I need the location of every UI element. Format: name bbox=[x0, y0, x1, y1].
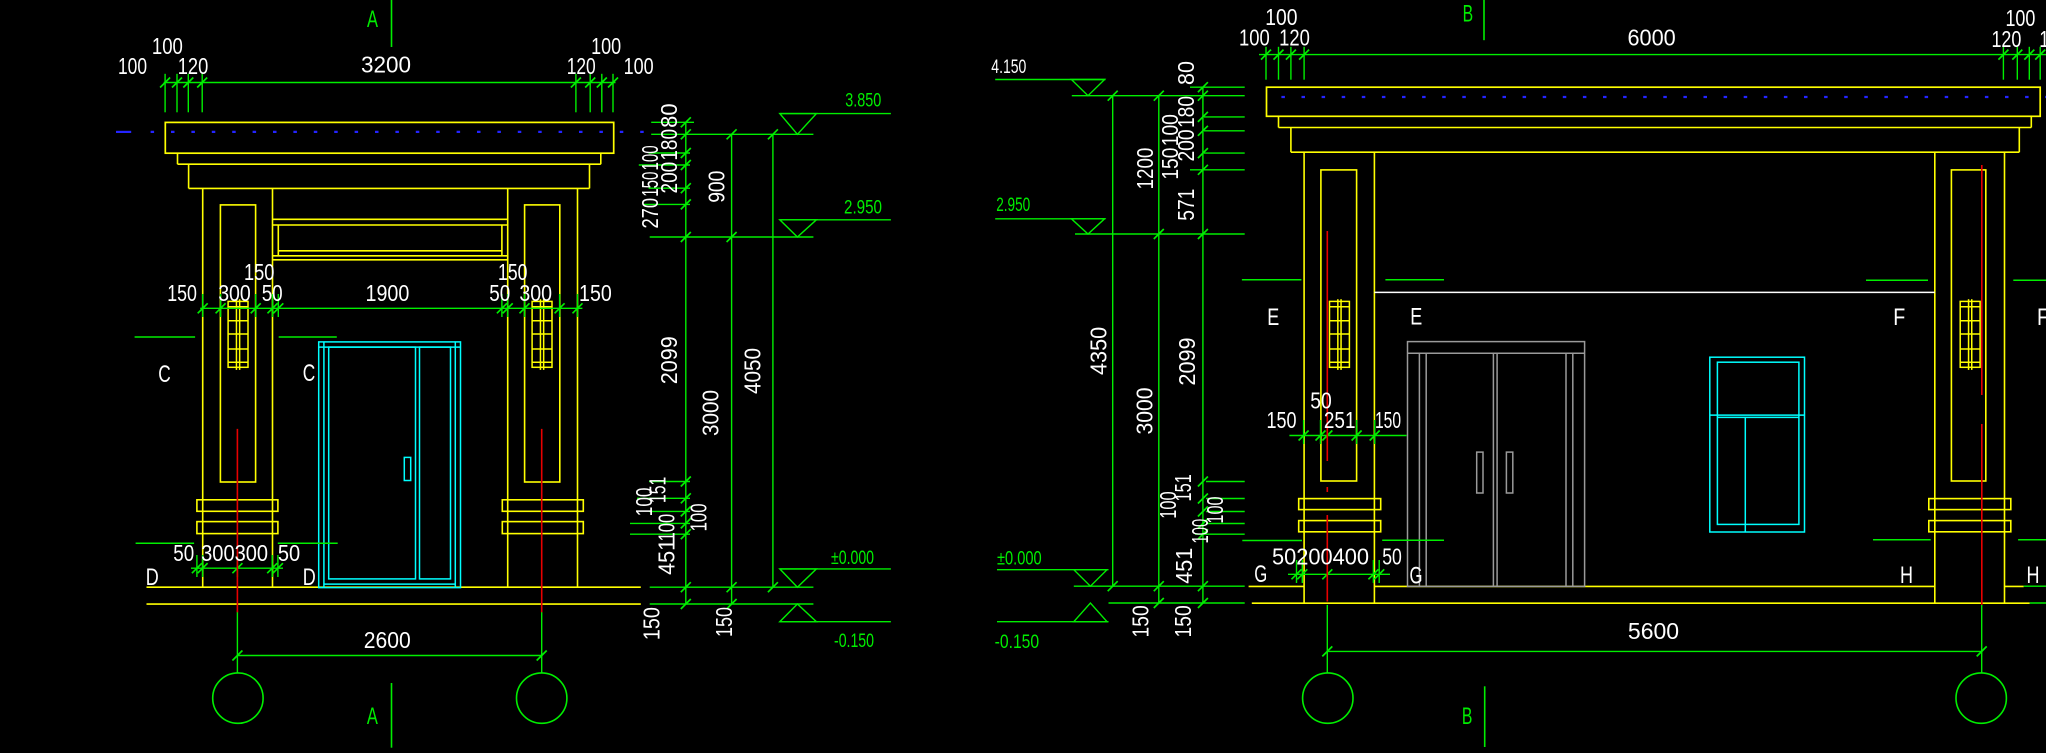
svg-text:150: 150 bbox=[244, 259, 274, 285]
svg-text:150: 150 bbox=[498, 259, 527, 285]
svg-text:120: 120 bbox=[1991, 26, 2021, 52]
svg-text:150: 150 bbox=[167, 280, 197, 306]
svg-text:H: H bbox=[2027, 562, 2040, 589]
svg-text:D: D bbox=[303, 564, 316, 591]
svg-text:50: 50 bbox=[1382, 544, 1402, 570]
svg-text:E: E bbox=[1267, 304, 1279, 331]
svg-text:300: 300 bbox=[201, 540, 235, 566]
svg-text:120: 120 bbox=[1279, 25, 1310, 51]
svg-text:251: 251 bbox=[1324, 407, 1356, 433]
svg-text:2.950: 2.950 bbox=[996, 195, 1030, 216]
svg-text:5600: 5600 bbox=[1628, 618, 1679, 644]
svg-text:2.950: 2.950 bbox=[844, 198, 882, 219]
svg-text:50: 50 bbox=[278, 540, 300, 566]
svg-text:C: C bbox=[303, 360, 316, 387]
svg-text:H: H bbox=[1900, 562, 1913, 589]
svg-text:E: E bbox=[1410, 303, 1422, 330]
svg-text:150: 150 bbox=[711, 607, 737, 637]
svg-text:100: 100 bbox=[631, 488, 657, 517]
svg-text:150: 150 bbox=[639, 607, 665, 640]
svg-text:B: B bbox=[1463, 1, 1474, 28]
svg-text:F: F bbox=[1893, 304, 1905, 331]
svg-text:3.850: 3.850 bbox=[845, 91, 881, 112]
svg-text:80: 80 bbox=[656, 103, 682, 128]
svg-text:6000: 6000 bbox=[1628, 25, 1676, 51]
svg-text:10: 10 bbox=[2039, 26, 2046, 52]
svg-text:A: A bbox=[367, 6, 378, 33]
svg-text:120: 120 bbox=[178, 53, 209, 79]
svg-text:±0.000: ±0.000 bbox=[831, 548, 874, 569]
svg-text:100: 100 bbox=[624, 53, 654, 79]
svg-text:3000: 3000 bbox=[1132, 387, 1158, 434]
svg-text:100: 100 bbox=[1187, 519, 1213, 544]
svg-text:270: 270 bbox=[637, 198, 663, 229]
svg-text:100: 100 bbox=[637, 145, 663, 170]
svg-text:100: 100 bbox=[654, 514, 680, 542]
svg-text:150: 150 bbox=[1375, 407, 1401, 433]
svg-text:3000: 3000 bbox=[697, 390, 723, 436]
svg-text:4350: 4350 bbox=[1086, 327, 1112, 375]
svg-text:1900: 1900 bbox=[366, 280, 410, 306]
svg-text:150: 150 bbox=[1267, 407, 1297, 433]
svg-text:100: 100 bbox=[1155, 491, 1181, 518]
svg-text:100: 100 bbox=[1239, 25, 1270, 51]
svg-text:50200400: 50200400 bbox=[1272, 544, 1369, 570]
svg-text:±0.000: ±0.000 bbox=[997, 548, 1042, 569]
svg-text:F: F bbox=[2037, 304, 2046, 331]
svg-text:3200: 3200 bbox=[361, 51, 411, 77]
svg-text:-0.150: -0.150 bbox=[834, 631, 874, 652]
svg-text:-0.150: -0.150 bbox=[995, 632, 1040, 653]
svg-text:150: 150 bbox=[579, 280, 612, 306]
svg-text:50: 50 bbox=[173, 540, 194, 566]
svg-text:900: 900 bbox=[703, 171, 729, 203]
svg-text:G: G bbox=[1254, 561, 1267, 588]
svg-text:A: A bbox=[367, 703, 378, 730]
svg-text:150: 150 bbox=[637, 172, 663, 197]
svg-text:1200: 1200 bbox=[1132, 148, 1158, 190]
svg-text:2099: 2099 bbox=[656, 336, 682, 384]
svg-text:4050: 4050 bbox=[740, 348, 766, 394]
svg-text:100: 100 bbox=[118, 53, 147, 79]
svg-text:2600: 2600 bbox=[364, 627, 411, 653]
svg-text:150: 150 bbox=[1157, 148, 1183, 180]
svg-text:451: 451 bbox=[1171, 548, 1197, 584]
svg-text:D: D bbox=[146, 564, 159, 591]
svg-text:150: 150 bbox=[1170, 605, 1196, 637]
svg-text:80: 80 bbox=[1173, 61, 1199, 85]
svg-text:4.150: 4.150 bbox=[991, 57, 1026, 78]
svg-text:571: 571 bbox=[1173, 189, 1199, 221]
svg-text:2099: 2099 bbox=[1174, 337, 1200, 385]
svg-text:100: 100 bbox=[591, 33, 621, 59]
svg-text:G: G bbox=[1410, 562, 1423, 589]
svg-text:C: C bbox=[158, 361, 171, 388]
svg-text:B: B bbox=[1462, 703, 1473, 730]
svg-text:150: 150 bbox=[1128, 605, 1154, 637]
svg-text:300: 300 bbox=[235, 540, 268, 566]
svg-text:100: 100 bbox=[685, 503, 711, 531]
svg-text:451: 451 bbox=[654, 539, 680, 575]
